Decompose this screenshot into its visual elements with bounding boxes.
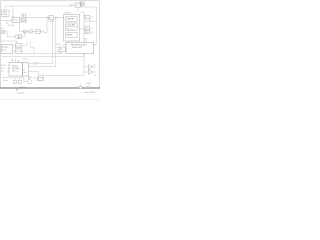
- svg-text:LED: LED: [1, 71, 4, 73]
- rail VDD long: [22, 53, 63, 55]
- svg-text:nRF21540 Front-End: nRF21540 Front-End: [71, 44, 87, 47]
- svg-text:conn J3: conn J3: [86, 85, 91, 87]
- block SW sel: [19, 35, 22, 39]
- wire U4 right and up: [22, 42, 27, 46]
- svg-text:SB: SB: [24, 31, 26, 33]
- svg-text:D+ D- V: D+ D- V: [11, 59, 16, 61]
- svg-text:BQ25: BQ25: [2, 49, 6, 51]
- routing jog: [31, 41, 34, 54]
- svg-text:VDD nRF: VDD nRF: [21, 21, 27, 23]
- svg-text:VDD 1V8: VDD 1V8: [23, 58, 29, 60]
- jumper SB11: [85, 26, 90, 29]
- buffer stubs: [84, 67, 89, 72]
- text labels: [1, 4, 96, 95]
- svg-text:SB: SB: [86, 28, 88, 30]
- wire drop to power chain: [44, 18, 47, 33]
- drop to battery: [24, 78, 27, 82]
- MCU section core: [66, 23, 77, 31]
- svg-text:u: u: [4, 12, 5, 14]
- wire battery to switch: [4, 32, 15, 37]
- header P1 box: [75, 3, 81, 7]
- measure block R: [36, 30, 41, 34]
- svg-text:Module (FEM): Module (FEM): [72, 47, 83, 49]
- wire U3 to U4: [13, 45, 16, 47]
- RF bottom stub with up arrow: [83, 54, 85, 76]
- jumper SB10: [85, 15, 90, 19]
- rail label box nRF: [21, 20, 26, 22]
- svg-text:P21: P21: [89, 20, 92, 22]
- link wire: [84, 21, 97, 23]
- right drop long: [96, 7, 98, 44]
- arrowhead into U2: [12, 16, 13, 17]
- svg-text:RF: RF: [35, 63, 37, 65]
- svg-text:BOOT: BOOT: [1, 68, 5, 70]
- wire VBUS down to regulator U2: [12, 6, 14, 17]
- pin arrows VDD rails: [21, 15, 24, 17]
- svg-text:P23: P23: [90, 32, 93, 34]
- svg-text:Li-Po: Li-Po: [1, 28, 5, 30]
- stub down from VBUS wire: [6, 21, 8, 24]
- sheet frame: [1, 1, 100, 88]
- bottom-left rail: [2, 77, 24, 79]
- part on title rule: [79, 86, 82, 88]
- wire mid-left rail: [2, 41, 17, 43]
- bottom stub: [12, 76, 14, 78]
- battery BT1: [2, 30, 5, 33]
- RF box U6: [66, 43, 94, 54]
- small part K2: [18, 80, 21, 83]
- svg-text:P1: P1: [76, 5, 78, 7]
- svg-text:USB PHY: USB PHY: [67, 19, 75, 21]
- svg-text:RADIO: RADIO: [67, 34, 73, 37]
- cortex box M2: [23, 63, 29, 77]
- box LDO U5: [15, 49, 22, 53]
- svg-text:P22: P22: [29, 31, 32, 33]
- wire USB to node VBUS: [5, 6, 13, 10]
- svg-text:CLK: CLK: [94, 65, 97, 67]
- connector J1 inner shield: [3, 12, 7, 15]
- wire from ref box right side: [82, 5, 97, 7]
- jumper SB1: [24, 30, 26, 33]
- right column drop: [83, 12, 85, 42]
- jumper P22: [29, 30, 32, 33]
- svg-text:5V 3V 1V8: 5V 3V 1V8: [21, 13, 27, 15]
- junction: [84, 29, 85, 30]
- wire RF feed P: [52, 20, 54, 64]
- svg-text:P20: P20: [80, 4, 83, 6]
- svg-text:Fig 1 blk: Fig 1 blk: [17, 92, 24, 94]
- svg-text:Imeas: Imeas: [36, 31, 40, 33]
- xtal wire: [29, 72, 39, 76]
- label wire into RF: [63, 44, 67, 46]
- power chain wire: [20, 32, 44, 33]
- MCU right pin stub: [80, 28, 85, 30]
- svg-text:SB: SB: [86, 32, 88, 34]
- MCU section radio: [66, 32, 77, 37]
- ctrl box: [59, 47, 65, 52]
- P1 down stub: [77, 7, 79, 12]
- MCU U1 outline: [64, 15, 80, 42]
- box charger U3: [1, 44, 12, 53]
- box LDO U4: [15, 43, 22, 47]
- wire to chain: [22, 33, 25, 37]
- wire RF feed N: [55, 18, 57, 67]
- svg-text:nRF USB: nRF USB: [8, 25, 15, 27]
- capacitor tick C1: [56, 17, 58, 19]
- RF diff pair to radio: [29, 63, 53, 65]
- node mark: [2, 41, 3, 42]
- svg-text:MCU nRF: MCU nRF: [12, 68, 19, 70]
- arrowhead into U2 left: [10, 20, 13, 21]
- wire VBUS top run to header P1: [13, 5, 75, 7]
- svg-text:CR2032: CR2032: [27, 77, 32, 79]
- regulator U2: [12, 17, 20, 22]
- title block top rule: [0, 87, 100, 89]
- svg-text:Y1: Y1: [40, 82, 42, 84]
- rail label box VB: [21, 17, 26, 19]
- switch S1 oval: [15, 35, 19, 38]
- ferrite bead FB1: [48, 16, 53, 20]
- ground under rule: [16, 89, 18, 91]
- wire left entry to U2: [1, 20, 12, 22]
- svg-text:GND plane: GND plane: [20, 87, 27, 89]
- cortex box M1: [9, 63, 23, 77]
- coin cell B1: [27, 80, 31, 84]
- svg-text:CTRL: CTRL: [56, 44, 60, 46]
- arrowhead into RF top: [83, 41, 84, 44]
- svg-text:RESET: RESET: [1, 65, 6, 67]
- line with label tiny box: [34, 62, 37, 64]
- junction node: [55, 17, 56, 18]
- arrow into RF box right: [94, 43, 96, 45]
- MCU section NFC: [66, 16, 77, 21]
- jumper SB12: [85, 30, 90, 33]
- connector J1 pins: [4, 17, 7, 18]
- svg-text:nRF5340: nRF5340: [64, 13, 71, 15]
- svg-text:VDD VB: VDD VB: [21, 18, 26, 20]
- svg-text:LDO 3V: LDO 3V: [16, 45, 21, 47]
- junction node: [46, 17, 47, 18]
- crystal Y1: [37, 78, 43, 81]
- svg-text:CLK: CLK: [94, 75, 97, 77]
- svg-text:SB: SB: [85, 17, 87, 19]
- dark ref box: [80, 2, 84, 5]
- buffer G2: [89, 70, 93, 75]
- arrowhead stub: [7, 23, 8, 24]
- connector J1 (USB): [2, 10, 9, 17]
- svg-text:FB1: FB1: [49, 18, 52, 20]
- top pin arrows: [11, 60, 14, 62]
- svg-text:Charger: Charger: [2, 46, 9, 49]
- svg-text:VDD: VDD: [90, 17, 93, 19]
- xtal leads: [39, 76, 43, 78]
- buffer G1: [89, 65, 93, 70]
- svg-text:5V reg: 5V reg: [13, 20, 18, 22]
- wire main 3V3 rail to MCU: [26, 17, 63, 19]
- small part K1: [14, 80, 17, 83]
- RF top stubs: [84, 39, 87, 43]
- left stubs: [8, 65, 9, 71]
- antenna stub: [56, 47, 59, 49]
- rail GND long: [2, 56, 84, 58]
- arrow tick: [42, 74, 43, 75]
- svg-text:Rev 1.0 2021: Rev 1.0 2021: [85, 92, 95, 94]
- arrowhead into MCU: [62, 17, 65, 18]
- svg-text:LDO 1V8: LDO 1V8: [16, 51, 22, 53]
- vert from U2 to chain: [19, 23, 21, 32]
- wire U3 to U5: [13, 50, 16, 52]
